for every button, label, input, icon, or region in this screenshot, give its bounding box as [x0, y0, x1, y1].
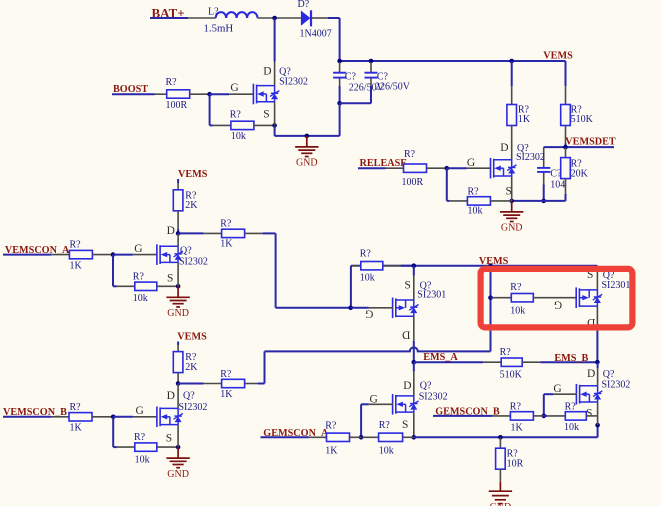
pin R1K gb left: [492, 415, 510, 417]
pin R100R rel left: [386, 167, 404, 169]
value SI2302 (Q6): [602, 379, 631, 390]
pin label S Q2: [506, 186, 512, 198]
pin R1K top: [511, 86, 513, 104]
wire to Q3 source: [401, 265, 414, 267]
net label GEMSCON_B: [435, 407, 500, 418]
transistor Q? SI2302 (QA): [157, 244, 183, 265]
pin R1K gb right: [533, 415, 543, 417]
net label VEMSDET: [565, 137, 616, 148]
svg-text:D: D: [263, 65, 271, 77]
value 2K B: [185, 362, 198, 373]
label R? 510K: [571, 105, 583, 116]
svg-text:L?: L?: [208, 7, 219, 18]
svg-text:VEMS: VEMS: [479, 256, 509, 267]
label R? 10k boost: [230, 110, 242, 121]
svg-text:R?: R?: [468, 187, 480, 198]
ground GND release: [500, 201, 523, 234]
label C? 104: [550, 169, 562, 180]
pin R1K drain A left: [204, 232, 222, 234]
pin R100R left: [155, 93, 167, 95]
junction C104 bottom: [541, 199, 546, 204]
svg-text:100R: 100R: [402, 177, 424, 188]
wire drain B up: [264, 351, 266, 383]
pin QB source: [177, 425, 179, 448]
wire gate Q3 wire: [351, 307, 369, 309]
resistor R? 100R boost: [167, 90, 190, 98]
svg-text:S: S: [405, 279, 411, 291]
svg-text:D: D: [167, 225, 175, 237]
net label VEMS B: [177, 332, 207, 343]
pin R2K B bottom: [177, 373, 179, 384]
wire bottom rail: [414, 436, 598, 438]
svg-text:R?: R?: [404, 149, 416, 160]
svg-text:R?: R?: [565, 402, 577, 413]
svg-text:Q?: Q?: [420, 380, 432, 391]
pin inductor right / wire to diode: [258, 17, 301, 19]
value 10k A: [133, 293, 148, 304]
capacitor C? 104: [537, 168, 550, 172]
svg-text:S: S: [166, 432, 172, 444]
svg-text:1K: 1K: [511, 423, 524, 434]
pin Q4 source: [596, 267, 598, 290]
value SI2302 (QB): [179, 402, 208, 413]
junction boost gate: [207, 92, 212, 97]
pin Q1 source: [274, 102, 276, 126]
wire VEMSCON_B: [3, 416, 51, 418]
wire Q5 gate down: [360, 404, 362, 437]
pin label G QB: [136, 405, 144, 417]
label R? 1K vems: [518, 105, 530, 116]
label R? 2K B: [185, 352, 197, 363]
pin label S Q1: [263, 108, 269, 120]
wire to D node A: [177, 229, 179, 234]
pin R1K in A left: [51, 254, 69, 256]
label Q? (QB): [183, 390, 195, 401]
resistor R? 510K: [561, 105, 571, 126]
pin R10k box right / Q4 gate: [533, 297, 576, 299]
pin label G Q5: [370, 393, 378, 405]
junction Q5 source: [412, 435, 417, 440]
wire caps bottom: [340, 102, 371, 104]
junction EMS_A: [412, 360, 417, 365]
value 1.5mH: [204, 22, 234, 34]
wire EMS_B: [540, 361, 597, 363]
label Q? (Q4): [603, 270, 615, 281]
resistor R? 1K drain A: [222, 229, 245, 237]
junction Q3 source: [412, 263, 417, 268]
pin cap2 top: [370, 62, 372, 72]
pin R2K A top: [177, 183, 179, 190]
svg-text:10k: 10k: [360, 273, 375, 284]
pin R510K ems right: [522, 361, 540, 363]
value 510K ems: [500, 370, 523, 381]
svg-text:R?: R?: [133, 272, 145, 283]
svg-text:R?: R?: [220, 369, 232, 380]
wire VEMSDET: [544, 146, 614, 148]
pin R10k B left: [117, 446, 135, 448]
pin R1K drain A right: [245, 232, 263, 234]
junction gemscon_a gate: [359, 435, 364, 440]
svg-text:R?: R?: [510, 282, 522, 293]
pin Q5 drain: [413, 371, 415, 396]
svg-text:S: S: [402, 419, 408, 431]
svg-text:R?: R?: [166, 77, 178, 88]
wire rail corner up: [597, 425, 599, 437]
svg-text:SI2301: SI2301: [602, 280, 631, 291]
pin R1K drain B left: [204, 383, 222, 385]
label R? drain B: [220, 369, 232, 380]
svg-text:R?: R?: [360, 249, 372, 260]
pin label D QB: [167, 390, 175, 402]
pin label D Q6: [587, 368, 595, 380]
value 1K in B: [70, 423, 83, 434]
svg-text:D: D: [403, 380, 411, 392]
pin R10k B right: [157, 446, 178, 448]
resistor R? 1K gemscon_b: [510, 412, 533, 420]
wire drain A to gate node: [276, 307, 351, 309]
pin R1K in B left: [51, 416, 69, 418]
svg-text:S: S: [167, 272, 173, 284]
wire Q6 gate down: [543, 394, 545, 416]
label R? 10k A: [133, 272, 145, 283]
pin label S Q3: [405, 279, 411, 291]
wire box vertical: [490, 266, 492, 352]
svg-text:G: G: [365, 308, 373, 320]
label C? (1): [345, 72, 357, 83]
wire Q5 drain from EMS_A: [413, 362, 415, 371]
svg-text:BOOST: BOOST: [113, 84, 148, 95]
net label BAT+: [152, 5, 185, 20]
ground GND A: [166, 286, 189, 319]
wire 10k A corner: [113, 285, 117, 287]
pin R10k ga left: [364, 436, 379, 438]
label Q? (Q3): [420, 280, 432, 291]
pin R1K bottom / Q2 drain: [511, 126, 513, 160]
svg-text:SI2302: SI2302: [602, 379, 631, 390]
label R? 10k Q3: [360, 249, 372, 260]
pin label G QA: [134, 243, 142, 255]
pin inductor left: [188, 17, 216, 19]
wire Q1 drain riser: [274, 18, 276, 62]
wire VEMS stub A: [177, 179, 179, 183]
pin R1K drain B right: [245, 383, 258, 385]
ground GND top: [295, 136, 318, 169]
net label VEMS mid: [479, 256, 509, 267]
pin QA gate: [133, 254, 157, 256]
wire Q3 drain down: [413, 341, 415, 363]
resistor R? 1K drain B: [222, 379, 245, 387]
resistor R? 10R: [496, 448, 506, 469]
junction QB source: [176, 445, 181, 450]
svg-text:GND: GND: [501, 223, 523, 234]
wire diode to rail corner: [328, 17, 340, 19]
pin R100R right: [190, 93, 210, 95]
red highlight box: [481, 269, 633, 328]
svg-text:G: G: [230, 82, 238, 94]
svg-text:Q?: Q?: [183, 390, 195, 401]
transistor Q? SI2302 (Q2): [491, 158, 517, 179]
svg-text:VEMS: VEMS: [543, 50, 573, 61]
junction gnd top: [305, 134, 310, 139]
label D?: [298, 0, 310, 10]
wire drain A to right: [263, 232, 276, 234]
svg-text:R?: R?: [220, 219, 232, 230]
wire gate B down: [112, 417, 114, 447]
svg-text:10k: 10k: [564, 422, 579, 433]
svg-text:D: D: [587, 368, 595, 380]
resistor R? 2K B: [173, 352, 183, 373]
pin R10k ga right: [403, 436, 414, 438]
svg-text:R?: R?: [500, 347, 512, 358]
svg-text:S: S: [263, 108, 269, 120]
svg-text:1K: 1K: [518, 114, 531, 125]
junction cap2 top: [369, 59, 374, 64]
label Q? (Q1): [279, 66, 291, 77]
pin Q3 gate: [369, 307, 394, 309]
resistor R? 10k gemscon_a: [379, 433, 403, 441]
pin label D Q1: [263, 65, 271, 77]
value 10k gb: [564, 422, 579, 433]
ground GND B: [166, 447, 189, 480]
svg-text:D: D: [500, 142, 508, 154]
wire Q3 source: [413, 266, 415, 276]
svg-text:G: G: [134, 243, 142, 255]
svg-text:10k: 10k: [379, 445, 394, 456]
transistor Q? SI2301 (Q4): [576, 287, 602, 308]
wire gate Q1: [210, 93, 230, 95]
pin R1K ga left: [309, 436, 327, 438]
pin Q2 gate: [467, 167, 491, 169]
pin R1K ga right: [350, 436, 362, 438]
pin R510K top: [565, 86, 567, 104]
pin label S Q5: [402, 419, 408, 431]
label R? 10k Q4: [510, 282, 522, 293]
wire Q6 gate corner: [544, 393, 553, 395]
transistor Q? SI2302 (Q1): [253, 84, 279, 105]
junction gate B: [111, 415, 116, 420]
net label VEMS A: [178, 169, 208, 180]
label Q? (QA): [180, 245, 192, 256]
svg-text:SI2302: SI2302: [419, 391, 448, 402]
pin label G Q1: [230, 82, 238, 94]
value SI2302 (QA): [179, 256, 208, 267]
pin label S QB: [166, 432, 172, 444]
label R? drain A: [220, 219, 232, 230]
svg-text:1K: 1K: [220, 239, 233, 250]
pin Q1 drain: [274, 62, 276, 86]
wire RELEASE: [358, 167, 386, 169]
resistor R? 10k release: [467, 197, 490, 205]
wire GEMSCON_A: [261, 436, 309, 438]
svg-text:VEMSDET: VEMSDET: [565, 137, 616, 148]
value SI2302 (Q5): [419, 391, 448, 402]
junction QA source: [176, 284, 181, 289]
value 1K ga: [325, 445, 338, 456]
wire gb to 10k: [544, 415, 548, 417]
svg-text:1N4007: 1N4007: [300, 29, 332, 40]
value SI2302 (Q2): [516, 152, 545, 163]
pin R20K top: [565, 147, 567, 158]
svg-text:Q?: Q?: [180, 245, 192, 256]
wire D branch A: [178, 232, 204, 234]
svg-text:1.5mH: 1.5mH: [204, 22, 234, 34]
label R? 10k gb: [565, 402, 577, 413]
net label VEMSCON_B: [3, 407, 67, 418]
net label GEMSCON_A: [263, 428, 329, 439]
label R? in A: [70, 240, 82, 251]
value 10R: [507, 459, 524, 470]
diode D? 1N4007: [301, 10, 311, 26]
pin R10k gb left: [547, 415, 565, 417]
pin Q2 source: [511, 176, 513, 201]
pin label G Q4 rotated: [554, 298, 562, 310]
svg-text:GND: GND: [296, 158, 318, 169]
pin R10k rel left: [449, 200, 467, 202]
value 104: [550, 179, 565, 190]
pin Q6 gate: [553, 393, 577, 395]
svg-text:20K: 20K: [571, 168, 589, 179]
resistor R? 1K vems: [507, 105, 517, 126]
junction BAT node: [272, 16, 277, 21]
resistor R? 510K ems: [501, 358, 522, 366]
pin R2K B top: [177, 345, 179, 352]
svg-text:GND: GND: [167, 469, 189, 480]
svg-text:G: G: [553, 383, 561, 395]
pin C104 top: [543, 147, 545, 167]
junction R1K top: [509, 59, 514, 64]
pin C104 bottom: [543, 172, 545, 184]
junction D node A: [176, 231, 181, 236]
pin label S Q4: [587, 269, 593, 281]
pin label D Q4 rotated: [587, 316, 595, 328]
wire boost 10k corner: [210, 124, 213, 126]
svg-text:510K: 510K: [500, 370, 523, 381]
junction release gate: [445, 166, 450, 171]
pin R10k boost left: [213, 124, 231, 126]
pin label D Q5: [403, 380, 411, 392]
junction D node B: [176, 381, 181, 386]
svg-text:10k: 10k: [510, 305, 525, 316]
svg-text:100R: 100R: [166, 100, 188, 111]
junction gemscon_b gate: [542, 414, 547, 419]
pin label G Q6: [553, 383, 561, 395]
label R? ems: [500, 347, 512, 358]
pin R10k A left: [117, 285, 135, 287]
junction 10R top: [498, 435, 503, 440]
value 100R boost: [166, 100, 188, 111]
wire rail left drop: [350, 266, 352, 308]
svg-text:R?: R?: [510, 402, 522, 413]
wire cap1 down: [339, 86, 341, 103]
junction EMS_B: [595, 360, 600, 365]
svg-text:10k: 10k: [135, 454, 150, 465]
net label BOOST: [113, 84, 148, 95]
junction gate Q3: [348, 306, 353, 311]
resistor R? 1K gemscon_a: [327, 433, 350, 441]
junction box gate: [488, 295, 493, 300]
wire GEMSCON_B: [433, 415, 492, 417]
label R? ga: [325, 421, 337, 432]
svg-text:D: D: [402, 329, 410, 341]
pin label S Q6: [586, 407, 592, 419]
resistor R? 10k gemscon_b: [565, 412, 586, 420]
svg-text:GND: GND: [167, 308, 189, 319]
wire gate A down: [112, 255, 114, 287]
resistor R? 10k (Q4 gate): [511, 294, 533, 302]
wire D branch B: [178, 383, 204, 385]
value 10k release: [468, 206, 483, 217]
svg-text:VEMS: VEMS: [178, 169, 208, 180]
net label EMS_B: [554, 353, 588, 364]
pin R10R bottom: [499, 469, 501, 482]
net label EMS_A: [423, 352, 458, 363]
wire Q4 drain down: [596, 331, 598, 363]
pin cap2 bottom: [370, 78, 372, 86]
label R? 10k B: [134, 432, 146, 443]
wire EMS_A: [414, 361, 483, 363]
pin R1K in B right: [92, 416, 113, 418]
junction Q1 source: [272, 123, 277, 128]
value 1K vems: [518, 114, 531, 125]
label L?: [208, 7, 219, 18]
svg-text:R?: R?: [230, 110, 242, 121]
svg-text:10k: 10k: [133, 293, 148, 304]
svg-text:510K: 510K: [571, 114, 594, 125]
transistor Q? SI2302 (Q6): [576, 384, 602, 405]
svg-text:SI2302: SI2302: [279, 76, 308, 87]
transistor Q? SI2302 (Q5): [393, 394, 419, 415]
label R? gb: [510, 402, 522, 413]
label R? 10k release: [468, 187, 480, 198]
wire drain A down: [275, 233, 277, 307]
svg-text:SI2302: SI2302: [516, 152, 545, 163]
resistor R? 2K A: [173, 190, 183, 211]
svg-text:SI2302: SI2302: [179, 256, 208, 267]
wire cap2 down: [370, 86, 372, 103]
wire release down: [446, 168, 448, 201]
wire Q5 gate: [361, 403, 369, 405]
pin Q3 source: [413, 276, 415, 301]
value SI2302 (Q1): [279, 76, 308, 87]
wire Q1 source down: [274, 125, 276, 135]
wire Q4 source corner: [596, 265, 598, 268]
wire BAT+ to inductor: [150, 17, 188, 19]
pin label G Q3 rotated: [365, 308, 373, 320]
wire 10k B corner: [113, 446, 117, 448]
wire source rail release: [512, 200, 566, 202]
value 10k Q4: [510, 305, 525, 316]
wire C104 down: [543, 185, 545, 201]
svg-text:G: G: [554, 298, 562, 310]
label R? 10R: [507, 449, 519, 460]
pin R2K A bottom: [177, 211, 179, 229]
pin R10R top: [499, 437, 501, 448]
net label RELEASE: [360, 158, 408, 169]
pin R510K bottom: [565, 126, 567, 144]
svg-text:2K: 2K: [185, 200, 198, 211]
wire gate A: [113, 254, 133, 256]
svg-text:1K: 1K: [220, 389, 233, 400]
pin R100R rel right: [427, 167, 447, 169]
svg-text:10k: 10k: [468, 206, 483, 217]
svg-text:SI2301: SI2301: [417, 289, 446, 300]
pin QA source: [177, 262, 179, 286]
svg-text:1K: 1K: [325, 445, 338, 456]
wire VEMSCON_A: [3, 254, 51, 256]
pin Q4 drain: [596, 306, 598, 331]
junction Q2 source: [509, 199, 514, 204]
pin QA drain: [177, 233, 179, 246]
